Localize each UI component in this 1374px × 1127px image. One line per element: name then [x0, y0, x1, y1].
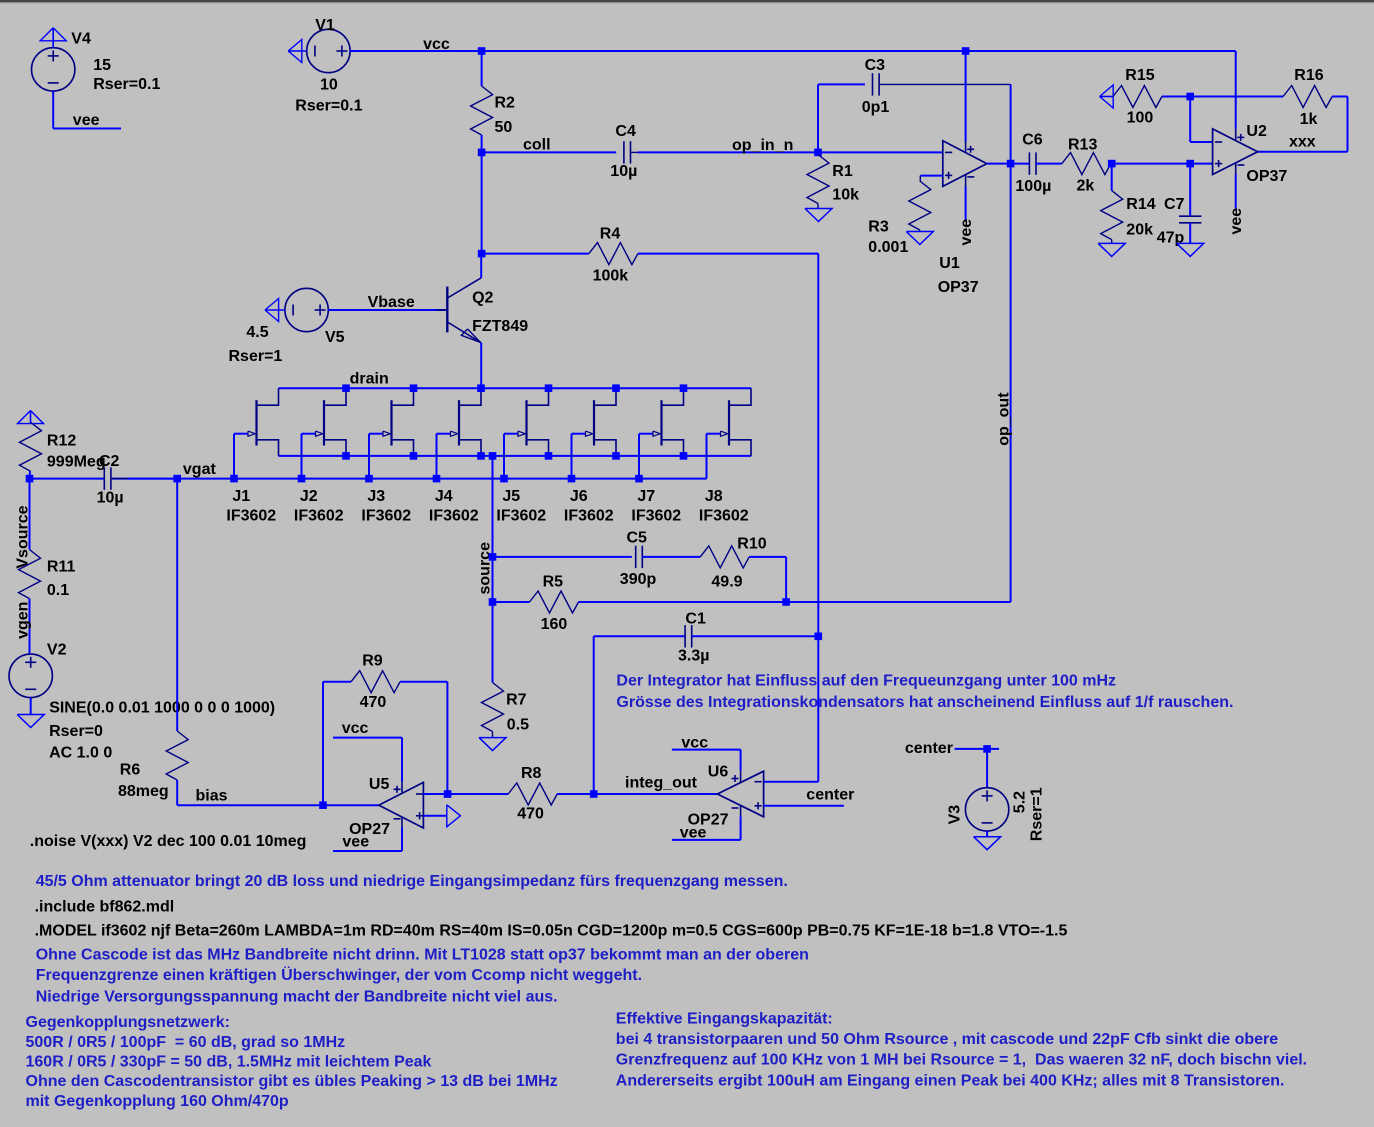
junction R10/R5 row: [782, 598, 790, 606]
svg-text:IF3602: IF3602: [361, 507, 411, 524]
svg-text:bei 4 transistorpaaren und 50: bei 4 transistorpaaren und 50 Ohm Rsourc…: [616, 1031, 1278, 1048]
junction source bus: [680, 452, 688, 460]
svg-text:vgen: vgen: [15, 602, 32, 639]
svg-text:R8: R8: [521, 765, 542, 782]
wire C4 to op_in_n node: [638, 151, 818, 153]
svg-text:op_in_n: op_in_n: [732, 137, 793, 154]
svg-text:R1: R1: [832, 163, 853, 180]
resistor R7: [482, 683, 504, 732]
junction vgat bus: [635, 475, 643, 483]
U5 vcc bracket wire: [333, 737, 402, 739]
svg-text:IF3602: IF3602: [496, 507, 546, 524]
junction drain bus: [342, 384, 350, 392]
wire C5 row: [493, 556, 632, 558]
junction source bus: [342, 452, 350, 460]
svg-text:V4: V4: [71, 31, 91, 48]
wire R10 down to R5 row: [785, 557, 787, 602]
svg-text:R14: R14: [1126, 196, 1155, 213]
junction source bus: [410, 452, 418, 460]
svg-text:vee: vee: [73, 112, 100, 129]
wire feedback node to U2 inverting input: [1189, 97, 1191, 143]
svg-text:160R / 0R5 / 330pF = 50 dB, 1.: 160R / 0R5 / 330pF = 50 dB, 1.5MHz mit l…: [26, 1054, 432, 1071]
junction vgat bus: [298, 475, 306, 483]
op-amp U2: [1213, 129, 1258, 175]
svg-text:Frequenzgrenze einen kräftigen: Frequenzgrenze einen kräftigen Überschwi…: [36, 965, 642, 984]
JFET J5: [525, 400, 527, 445]
junction vgat bus: [433, 475, 441, 483]
wire U1 plus input: [920, 175, 943, 177]
junction drain bus: [410, 384, 418, 392]
junction R13/R14: [1108, 160, 1116, 168]
svg-text:IF3602: IF3602: [294, 507, 344, 524]
junction vgat bus: [500, 475, 508, 483]
svg-text:C4: C4: [615, 123, 636, 140]
wire R4 right down to C1 node: [817, 254, 819, 637]
svg-text:SINE(0.0 0.01 1000 0 0 0 1000): SINE(0.0 0.01 1000 0 0 0 1000): [49, 700, 275, 717]
svg-text:FZT849: FZT849: [472, 318, 528, 335]
svg-text:Vbase: Vbase: [368, 294, 415, 311]
JFET J2: [323, 400, 325, 445]
svg-text:V3: V3: [947, 805, 964, 825]
svg-text:R15: R15: [1125, 67, 1154, 84]
svg-text:C3: C3: [865, 57, 886, 74]
op-amp U6: [717, 771, 763, 817]
svg-text:Rser=0.1: Rser=0.1: [295, 98, 362, 115]
wire U2 V- pin to vee: [1235, 175, 1237, 209]
svg-text:R2: R2: [495, 95, 516, 112]
svg-text:4.5: 4.5: [246, 324, 268, 341]
resistor R14: [1111, 164, 1113, 191]
svg-text:drain: drain: [350, 371, 389, 388]
svg-text:J8: J8: [705, 488, 723, 505]
U5 vee bracket wire: [401, 827, 403, 851]
flag at R12 top: [30, 411, 32, 424]
svg-text:Rser=0: Rser=0: [49, 723, 103, 740]
junction source tap: [489, 452, 497, 460]
wire junction to C2: [30, 478, 105, 480]
junction source bus: [477, 452, 485, 460]
JFET J4: [458, 400, 460, 445]
svg-text:R11: R11: [47, 559, 76, 576]
junction feedback node: [1186, 93, 1194, 101]
wire op_in_n up to C3: [817, 84, 819, 152]
ground under V3: [974, 837, 1001, 850]
wire source bus: [279, 455, 752, 457]
svg-text:Andererseits ergibt 100uH am E: Andererseits ergibt 100uH am Eingang ein…: [616, 1072, 1285, 1089]
svg-text:U6: U6: [708, 764, 729, 781]
wire V2 to ground: [30, 698, 32, 715]
capacitor C7: [1189, 164, 1191, 217]
wire U1 output: [987, 163, 1011, 165]
svg-text:U2: U2: [1246, 123, 1267, 140]
svg-text:vgat: vgat: [183, 461, 217, 478]
resistor R16: [1283, 86, 1332, 108]
svg-text:10µ: 10µ: [97, 490, 124, 507]
wire Vbase: [328, 309, 446, 311]
JFET J8: [728, 400, 730, 445]
wire vgat bus: [112, 478, 707, 480]
junction source/C5: [489, 553, 497, 561]
svg-text:Rser=0.1: Rser=0.1: [93, 76, 160, 93]
svg-text:0.1: 0.1: [47, 582, 69, 599]
svg-text:J1: J1: [232, 488, 250, 505]
svg-text:AC 1.0 0: AC 1.0 0: [49, 745, 112, 762]
svg-text:470: 470: [517, 806, 544, 823]
svg-text:100k: 100k: [593, 268, 629, 285]
svg-text:IF3602: IF3602: [226, 507, 276, 524]
svg-text:88meg: 88meg: [118, 783, 169, 800]
svg-text:20k: 20k: [1126, 221, 1153, 238]
svg-text:J4: J4: [435, 488, 453, 505]
junction U1 output op_out: [1007, 160, 1015, 168]
svg-text:Ohne Cascode ist das MHz Bandb: Ohne Cascode ist das MHz Bandbreite nich…: [36, 946, 809, 963]
op-amp U5: [379, 782, 424, 828]
wire integ_out up to C1: [593, 636, 595, 794]
junction vgat bus: [230, 475, 238, 483]
resistor R13: [1062, 153, 1111, 175]
JFET J3: [390, 400, 392, 445]
junction bias/R9: [319, 801, 327, 809]
resistor R2: [481, 51, 483, 86]
svg-text:J6: J6: [570, 488, 588, 505]
svg-text:10: 10: [320, 77, 338, 94]
wire coll down to R4/Q2 collector: [481, 152, 483, 253]
svg-text:integ_out: integ_out: [625, 775, 698, 792]
junction source bus: [612, 452, 620, 460]
junction drain bus: [545, 384, 553, 392]
junction C1 right: [815, 633, 823, 641]
junction drain bus: [680, 384, 688, 392]
ground under R3: [906, 232, 933, 245]
svg-text:J3: J3: [367, 488, 385, 505]
junction R12/C2/R11: [26, 475, 34, 483]
wire drain bus: [279, 387, 752, 389]
svg-text:R7: R7: [506, 692, 527, 709]
svg-text:IF3602: IF3602: [564, 507, 614, 524]
svg-text:R6: R6: [120, 762, 141, 779]
junction drain bus: [477, 384, 485, 392]
svg-text:10µ: 10µ: [610, 163, 637, 180]
svg-text:V2: V2: [47, 642, 67, 659]
svg-text:vee: vee: [958, 219, 975, 246]
svg-text:U5: U5: [369, 776, 390, 793]
svg-text:C1: C1: [685, 611, 706, 628]
wire coll to C4: [482, 151, 617, 153]
wire to U2 non-inverting input: [1190, 163, 1212, 165]
junction op_in_n: [814, 149, 822, 157]
voltage source V1: [307, 29, 350, 72]
junction vcc/R2: [478, 47, 486, 55]
voltage source V4: [32, 48, 75, 91]
junction vcc/U1 supply: [962, 47, 970, 55]
flag at V5 left: [265, 309, 285, 311]
svg-text:1k: 1k: [1300, 111, 1318, 128]
svg-text:Grösse des Integrationskondens: Grösse des Integrationskondensators hat …: [616, 694, 1233, 711]
svg-text:IF3602: IF3602: [699, 507, 749, 524]
svg-text:vee: vee: [680, 825, 707, 842]
wire feedback node to R16: [1190, 96, 1283, 98]
svg-text:500R / 0R5 / 100pF = 60 dB, g: 500R / 0R5 / 100pF = 60 dB, grad so 1MHz: [26, 1034, 346, 1051]
svg-text:Gegenkopplungsnetzwerk:: Gegenkopplungsnetzwerk:: [26, 1014, 230, 1031]
top window border bar: [0, 0, 1374, 2]
svg-text:vee: vee: [342, 834, 369, 851]
svg-text:50: 50: [495, 119, 513, 136]
wire U1 V- pin to vee: [965, 186, 967, 220]
ground under R1: [805, 209, 832, 222]
svg-text:0.001: 0.001: [868, 239, 908, 256]
wire vcc to U1 V+ pin: [965, 51, 967, 142]
JFET J6: [593, 400, 595, 445]
svg-text:vcc: vcc: [342, 720, 369, 737]
junction vgat bus: [365, 475, 373, 483]
wire bias: [177, 804, 379, 806]
wire vsource down: [29, 479, 31, 550]
svg-text:J5: J5: [502, 488, 520, 505]
svg-text:center: center: [905, 740, 953, 757]
capacitor C2: [103, 467, 105, 489]
svg-text:49.9: 49.9: [711, 574, 742, 591]
svg-text:C7: C7: [1164, 196, 1185, 213]
svg-text:IF3602: IF3602: [631, 507, 681, 524]
wire R9 right down to U5 inv input: [446, 682, 448, 794]
wire V3 to ground: [986, 831, 988, 837]
flag arrow at U5 plus input: [447, 805, 461, 827]
wire op_out vertical: [1010, 164, 1012, 602]
svg-text:J2: J2: [300, 488, 318, 505]
svg-text:Q2: Q2: [472, 290, 493, 307]
svg-text:op_out: op_out: [995, 392, 1012, 446]
voltage source V3: [965, 788, 1008, 831]
svg-text:Effektive Eingangskapazität:: Effektive Eingangskapazität:: [616, 1011, 833, 1028]
JFET J1: [255, 400, 257, 445]
svg-text:100µ: 100µ: [1015, 178, 1051, 195]
resistor R12: [20, 422, 42, 471]
capacitor C4: [623, 141, 625, 163]
resistor R10: [700, 546, 749, 568]
flag at V4 top: [52, 28, 54, 48]
wire U6 non-inverting input to center: [764, 805, 844, 807]
svg-text:999Meg: 999Meg: [47, 454, 106, 471]
U6 vee bracket wire: [740, 816, 742, 840]
svg-text:3.3µ: 3.3µ: [678, 648, 709, 665]
svg-text:Ohne den Cascodentransistor gi: Ohne den Cascodentransistor gibt es üble…: [26, 1073, 558, 1090]
resistor R8: [448, 793, 509, 795]
junction vgat bus: [568, 475, 576, 483]
resistor R15: [1113, 86, 1162, 108]
junction integ_out: [590, 790, 598, 798]
svg-text:source: source: [476, 542, 493, 595]
wire bias junction up to R9: [322, 682, 324, 806]
svg-text:J7: J7: [637, 488, 655, 505]
voltage source V2: [9, 654, 52, 697]
svg-text:R16: R16: [1294, 67, 1323, 84]
svg-text:R9: R9: [362, 653, 383, 670]
wire U5 inverting input: [423, 793, 447, 795]
flag at V1 left: [288, 50, 307, 52]
resistor R1: [807, 155, 829, 204]
svg-text:R3: R3: [868, 219, 889, 236]
svg-text:Rser=1: Rser=1: [1029, 787, 1046, 841]
wire R13 junction to U2 junction: [1112, 163, 1191, 165]
svg-text:C6: C6: [1022, 132, 1043, 149]
wire vgat down to R6: [176, 479, 178, 731]
svg-text:390p: 390p: [620, 571, 657, 588]
svg-text:Rser=1: Rser=1: [229, 348, 283, 365]
svg-text:.MODEL if3602 njf Beta=260m LA: .MODEL if3602 njf Beta=260m LAMBDA=1m RD…: [35, 922, 1068, 939]
resistor R3: [919, 176, 921, 181]
wire R5 row to op_out corner: [786, 601, 1011, 603]
op-amp U1: [943, 141, 987, 187]
wire Q2 emitter to drain bus: [480, 343, 482, 388]
svg-text:C2: C2: [99, 453, 120, 470]
svg-text:bias: bias: [196, 787, 228, 804]
transistor Q2: [446, 287, 448, 333]
ground under R7: [479, 738, 506, 751]
svg-text:vcc: vcc: [423, 36, 450, 53]
svg-text:Der Integrator hat Einfluss au: Der Integrator hat Einfluss auf den Freq…: [616, 672, 1116, 689]
junction C7 node: [1186, 160, 1194, 168]
JFET J7: [660, 400, 662, 445]
svg-text:R12: R12: [47, 433, 76, 450]
ground under V2: [17, 715, 44, 728]
svg-text:R13: R13: [1068, 136, 1097, 153]
junction R4 left: [478, 250, 486, 258]
wire C3 to U1 output: [1010, 84, 1012, 163]
svg-text:V5: V5: [325, 329, 345, 346]
ground under C7: [1177, 243, 1204, 256]
svg-text:10k: 10k: [832, 187, 859, 204]
svg-text:V1: V1: [315, 17, 335, 34]
wire center to V3: [955, 748, 1000, 750]
svg-text:xxx: xxx: [1289, 133, 1316, 150]
wire source tap down: [492, 456, 494, 683]
capacitor C6: [1011, 163, 1030, 165]
flag at R15 left: [1100, 96, 1113, 98]
wire U5 non-inverting input: [423, 815, 447, 817]
junction drain bus: [612, 384, 620, 392]
svg-text:Grenzfrequenz auf 100 KHz von: Grenzfrequenz auf 100 KHz von 1 MH bei R…: [616, 1052, 1307, 1069]
junction vgat bus: [173, 475, 181, 483]
voltage source V5: [285, 288, 328, 331]
svg-text:0.5: 0.5: [507, 716, 529, 733]
svg-text:IF3602: IF3602: [429, 507, 479, 524]
svg-text:.noise V(xxx) V2 dec 100 0.01: .noise V(xxx) V2 dec 100 0.01 10meg: [30, 833, 307, 850]
svg-text:OP37: OP37: [938, 279, 979, 296]
svg-text:R10: R10: [737, 536, 766, 553]
svg-text:2k: 2k: [1077, 178, 1095, 195]
junction center/V3: [983, 745, 991, 753]
svg-text:mit Gegenkopplung 160 Ohm/470p: mit Gegenkopplung 160 Ohm/470p: [26, 1093, 289, 1110]
junction U5 inv/R8/R9: [444, 790, 452, 798]
wire integ_out to U6: [594, 793, 718, 795]
svg-text:470: 470: [360, 694, 387, 711]
svg-text:160: 160: [541, 616, 568, 633]
svg-text:center: center: [806, 787, 854, 804]
wire op_in_n to U1 inverting input: [818, 151, 943, 153]
svg-text:R5: R5: [543, 574, 564, 591]
svg-text:0p1: 0p1: [862, 99, 890, 116]
resistor R6: [166, 731, 188, 780]
svg-text:OP37: OP37: [1246, 168, 1287, 185]
svg-text:45/5 Ohm attenuator bringt 20: 45/5 Ohm attenuator bringt 20 dB loss un…: [36, 873, 788, 890]
junction coll node: [478, 149, 486, 157]
wire vcc rail down to U2 V+ pin: [1235, 51, 1237, 129]
junction source/R5: [489, 598, 497, 606]
resistor R9: [351, 671, 400, 693]
svg-text:U1: U1: [939, 255, 960, 272]
capacitor C1: [684, 625, 686, 647]
capacitor C5: [635, 546, 637, 568]
ground under R14: [1098, 243, 1125, 256]
wire C1 node down to U6 inverting input: [817, 636, 819, 781]
svg-text:100: 100: [1127, 110, 1154, 127]
resistor R5: [493, 601, 530, 603]
svg-text:15: 15: [93, 57, 111, 74]
svg-text:vcc: vcc: [681, 735, 708, 752]
svg-text:vee: vee: [1228, 208, 1245, 235]
junction source bus: [545, 452, 553, 460]
svg-text:.include bf862.mdl: .include bf862.mdl: [35, 898, 175, 915]
svg-text:C5: C5: [627, 529, 648, 546]
resistor R11: [19, 550, 41, 599]
resistor R4: [482, 253, 589, 255]
svg-text:5.2: 5.2: [1012, 791, 1029, 813]
wire R16 down to U2 output: [1347, 97, 1349, 152]
svg-text:Niedrige Versorgungsspannung m: Niedrige Versorgungsspannung macht der B…: [36, 989, 558, 1006]
wire vcc rail: [350, 50, 1236, 52]
svg-text:Vsource: Vsource: [15, 505, 32, 568]
svg-text:coll: coll: [523, 136, 551, 153]
U6 vcc bracket wire: [672, 749, 741, 751]
svg-text:R4: R4: [600, 226, 621, 243]
capacitor C3: [872, 73, 874, 95]
wire V4 minus to vee: [52, 91, 54, 128]
